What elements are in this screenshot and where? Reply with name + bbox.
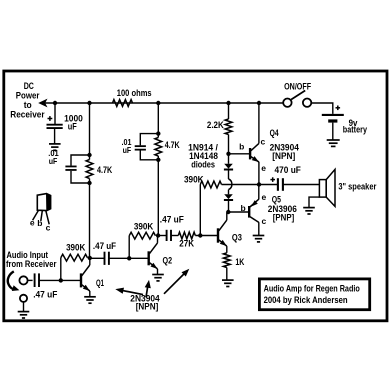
svg-text:uF: uF xyxy=(123,145,132,155)
wire Q4 emitter down to output node xyxy=(258,162,260,185)
wire input terminal to C.47uF xyxy=(27,279,32,281)
svg-text:ON/OFF: ON/OFF xyxy=(284,82,311,92)
input squiggle arrow xyxy=(8,271,14,289)
pointer arrow to Q3 xyxy=(164,273,185,293)
wire Q2 collector to node xyxy=(157,236,159,243)
node junction Q3 base xyxy=(198,233,202,237)
node junction RC combo2 top xyxy=(156,131,160,135)
wire combo2 down to Q2 collector node xyxy=(157,160,159,236)
svg-text:[PNP]: [PNP] xyxy=(273,213,294,223)
svg-text:from Receiver: from Receiver xyxy=(6,259,57,269)
wire battery negative lead xyxy=(332,123,334,140)
wire Q2 emitter to ground xyxy=(157,269,159,274)
transistor Q5 2N3906 PNP xyxy=(248,206,250,218)
wire diode2 anode lead xyxy=(228,190,230,195)
capacitor .47uF input xyxy=(34,273,36,287)
svg-text:4.7K: 4.7K xyxy=(165,140,180,150)
transistor Q4 2N3904 NPN xyxy=(249,148,251,159)
svg-text:.47 uF: .47 uF xyxy=(160,214,184,224)
svg-text:battery: battery xyxy=(343,125,367,135)
svg-text:[NPN]: [NPN] xyxy=(272,151,295,161)
ground below 1000uF xyxy=(49,143,61,145)
svg-text:390K: 390K xyxy=(184,174,204,184)
resistor 4.7K (combo2) xyxy=(155,138,162,157)
input terminal circle xyxy=(19,276,27,284)
svg-text:27K: 27K xyxy=(179,239,194,249)
node junction Q2 collector xyxy=(156,233,160,237)
ground below Q1 xyxy=(84,296,96,298)
schematic frame border xyxy=(4,71,387,321)
speaker 3 inch driver xyxy=(319,180,326,198)
ground below 1K xyxy=(222,279,234,281)
svg-text:e: e xyxy=(261,163,266,173)
svg-text:b: b xyxy=(239,142,244,152)
node junction V+ at first RC filter xyxy=(87,101,91,105)
svg-text:390K: 390K xyxy=(134,221,154,231)
node junction V+ at Q4 collector xyxy=(257,101,261,105)
svg-text:DC: DC xyxy=(24,81,35,91)
switch ON/OFF pole xyxy=(283,99,291,107)
svg-text:uF: uF xyxy=(49,156,58,166)
wire top supply rail left of switch xyxy=(45,102,284,104)
svg-text:.47 uF: .47 uF xyxy=(33,289,58,299)
node junction RC combo1 bottom xyxy=(87,181,91,185)
ground below Q5 collector xyxy=(253,235,265,237)
svg-text:Q4: Q4 xyxy=(270,128,279,138)
wire output node y184.5 xyxy=(222,184,278,186)
ground below Q2 xyxy=(152,274,164,276)
svg-text:uF: uF xyxy=(68,121,77,131)
battery 9v plates xyxy=(322,114,344,116)
title box xyxy=(259,279,369,310)
pointer arrow to Q1 xyxy=(122,290,144,294)
svg-text:2.2K: 2.2K xyxy=(207,120,224,130)
svg-text:Q1: Q1 xyxy=(96,278,104,288)
svg-text:e: e xyxy=(30,218,35,228)
svg-text:3" speaker: 3" speaker xyxy=(338,182,376,192)
svg-text:b: b xyxy=(240,203,245,213)
pointer arrow to Q2 xyxy=(146,285,148,297)
wire diode1 anode lead xyxy=(228,154,230,164)
resistor 27K xyxy=(178,232,195,239)
svg-text:470 uF: 470 uF xyxy=(275,165,302,175)
wire diode1 cathode lead xyxy=(228,171,230,180)
transistor Q3 2N3904 NPN xyxy=(217,228,219,242)
wire Q2 node to cap xyxy=(158,235,167,237)
capacitor .47uF stage2-3 xyxy=(166,230,168,241)
capacitor C 470uF output xyxy=(277,178,279,191)
svg-text:Q2: Q2 xyxy=(163,255,173,265)
wire 27K to Q3 base xyxy=(195,235,217,237)
wire Q1 node to cap xyxy=(90,257,105,259)
resistor 1K emitter xyxy=(223,253,230,268)
capacitor .01uF combo2 branch xyxy=(140,134,158,146)
svg-text:Audio Amp for Regen Radio: Audio Amp for Regen Radio xyxy=(264,283,361,293)
node junction Q1 collector xyxy=(88,256,92,260)
switch ON/OFF throw xyxy=(303,99,311,107)
wire V+ down to RC combo 2 xyxy=(157,103,159,134)
wire input ground lead xyxy=(23,302,25,312)
wire Q3 base node up for 390K feedback xyxy=(199,185,201,236)
node/arrow: DC power output arrow to receiver xyxy=(38,99,47,108)
wire Q4 base xyxy=(230,153,250,155)
ground at audio input xyxy=(18,311,30,313)
node junction Q5 base / Q3 collector xyxy=(226,210,230,214)
diode D2 1N914/1N4148 xyxy=(224,194,233,199)
wire cap to Q2 base xyxy=(109,257,148,259)
resistor 2.2K xyxy=(225,119,232,135)
wire switch to battery xyxy=(311,103,333,114)
transistor package pictorial TO-92 xyxy=(37,194,50,211)
svg-text:4.7K: 4.7K xyxy=(97,165,113,175)
svg-text:Q5: Q5 xyxy=(272,194,281,204)
svg-text:to: to xyxy=(24,100,32,110)
ground below battery xyxy=(327,139,340,141)
diode D1 1N914/1N4148 xyxy=(224,164,233,169)
node junction V+ at 2.2K xyxy=(226,101,230,105)
svg-text:c: c xyxy=(261,137,266,147)
svg-text:Receiver: Receiver xyxy=(10,110,45,120)
svg-text:Q3: Q3 xyxy=(232,232,242,242)
wire diode2 cathode lead xyxy=(228,201,230,212)
svg-text:2004 by Rick Andersen: 2004 by Rick Andersen xyxy=(264,295,348,305)
wire Q3 collector up to diode node xyxy=(226,213,228,221)
wire hop over output wire (no connect) xyxy=(229,179,232,190)
wire input cap to Q1 base xyxy=(39,279,80,281)
wire V+ down to RC combo 1 xyxy=(89,103,91,155)
svg-text:[NPN]: [NPN] xyxy=(136,302,159,312)
wire 1K to ground xyxy=(226,268,228,280)
resistor 390K (Q2 feedback) xyxy=(128,236,130,259)
svg-text:c: c xyxy=(262,216,267,226)
capacitor C 1000uF polarity + xyxy=(48,118,53,120)
wire 1000uF top lead xyxy=(54,103,56,124)
node junction RC combo1 top xyxy=(87,153,91,157)
wire 2.2K to Q4 base node xyxy=(228,135,230,154)
wire Q1 emitter to ground xyxy=(89,291,91,296)
resistor 390K (Q3 feedback) xyxy=(200,181,221,188)
svg-text:b: b xyxy=(37,218,42,228)
wire Q5 base xyxy=(230,211,249,213)
svg-text:diodes: diodes xyxy=(191,160,215,170)
svg-text:390K: 390K xyxy=(66,243,86,253)
wire combo1 resistor stubs xyxy=(89,155,91,160)
node junction RC combo2 bottom xyxy=(156,158,160,162)
wire 470uF to speaker xyxy=(283,184,319,186)
battery 9v plus terminal xyxy=(336,107,341,109)
transistor Q2 2N3904 NPN xyxy=(147,251,149,265)
wire Q5 emitter up to output node xyxy=(258,185,260,200)
capacitor .01uF combo1 branch xyxy=(71,155,90,166)
resistor 390K (Q1 feedback) xyxy=(60,258,62,281)
svg-text:Power: Power xyxy=(16,91,40,101)
wire cap to 27K xyxy=(171,235,178,237)
wire Q4 collector to V+ xyxy=(258,103,260,143)
wire combo1 down to Q1 collector node xyxy=(89,183,91,258)
node junction Q1 base xyxy=(59,278,63,282)
transistor Q1 2N3904 NPN xyxy=(80,273,82,287)
input ground terminal circle xyxy=(20,295,27,302)
resistor 100 ohms (series supply) xyxy=(113,100,133,107)
wire combo2 resistor stubs xyxy=(157,134,159,138)
svg-text:1K: 1K xyxy=(235,257,244,267)
wire speaker return to ground xyxy=(309,197,319,207)
wire V+ down to 2.2K xyxy=(228,103,230,119)
capacitor C 470uF polarity + xyxy=(270,179,275,181)
node junction output emitters xyxy=(257,182,261,186)
wire Q5 collector to ground xyxy=(258,222,260,235)
switch lever xyxy=(291,91,305,100)
node junction Q4 base / diode top xyxy=(226,152,230,156)
svg-text:100 ohms: 100 ohms xyxy=(117,88,152,98)
capacitor C 1000uF xyxy=(47,124,63,126)
wire 1000uF bottom lead xyxy=(54,128,56,144)
svg-text:.47 uF: .47 uF xyxy=(93,241,117,251)
svg-text:c: c xyxy=(46,223,51,233)
capacitor .47uF stage1-2 xyxy=(104,252,106,265)
node junction Q2 base xyxy=(127,256,131,260)
node junction V+ at 1000uF tap xyxy=(53,101,57,105)
svg-text:e: e xyxy=(262,192,267,202)
resistor 4.7K (combo1) xyxy=(86,160,93,179)
node junction V+ after 100 ohm xyxy=(156,101,160,105)
ground below speaker xyxy=(303,207,315,209)
wire Q3 emitter to 1K xyxy=(226,246,228,253)
wire Q1 collector to node xyxy=(89,258,91,265)
